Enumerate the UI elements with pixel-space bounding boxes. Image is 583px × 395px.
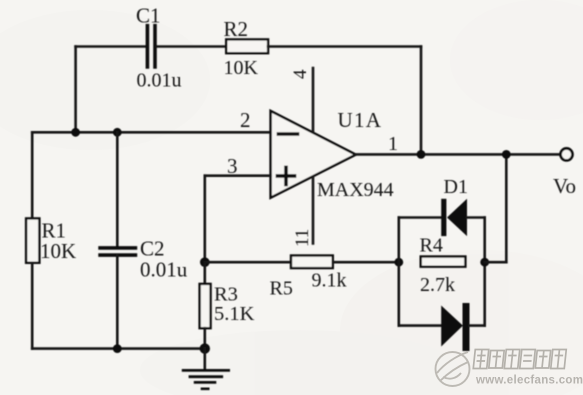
wire R3 lower xyxy=(204,328,207,348)
wire loop bottom left segment xyxy=(399,324,442,327)
svg-text:D1: D1 xyxy=(444,176,468,198)
svg-text:4: 4 xyxy=(290,69,311,79)
node pin3/R5/R3 xyxy=(200,257,210,267)
wire C2 branch upper xyxy=(116,132,119,247)
wire C2 branch lower xyxy=(116,255,119,348)
wire pin3 horizontal xyxy=(205,174,271,177)
svg-text:2.7k: 2.7k xyxy=(420,274,455,296)
node C2/ground rail xyxy=(113,344,122,353)
wire C1 to R2 xyxy=(157,45,226,48)
svg-text:MAX944: MAX944 xyxy=(317,179,394,201)
capacitor C1 xyxy=(136,4,182,92)
wire top left horizontal to C1 xyxy=(76,45,146,48)
svg-text:0.01u: 0.01u xyxy=(137,70,182,92)
wire pin3 vertical xyxy=(204,176,207,263)
wire left vertical C1 branch xyxy=(74,47,77,133)
pin 11 stub xyxy=(292,177,313,247)
svg-text:C1: C1 xyxy=(136,4,161,28)
resistor R5 xyxy=(270,256,347,300)
svg-text:0.01u: 0.01u xyxy=(140,258,188,282)
wire loop top left segment xyxy=(399,216,442,219)
wire R5 to loop xyxy=(333,261,399,264)
wire R1 bottom to ground rail xyxy=(31,263,34,349)
pin 2 label xyxy=(240,108,251,132)
svg-text:R2: R2 xyxy=(224,17,249,41)
wire R3 upper xyxy=(204,262,207,284)
svg-text:10K: 10K xyxy=(40,239,76,263)
svg-text:2: 2 xyxy=(240,108,251,132)
watermark text xyxy=(473,350,566,369)
node B junction C2/pin2 xyxy=(113,128,122,137)
wire bottom ground rail xyxy=(32,347,205,350)
wire loop right vertical xyxy=(483,218,486,326)
svg-text:R4: R4 xyxy=(420,235,443,257)
terminal Vo xyxy=(553,148,576,198)
watermark logo xyxy=(436,352,470,386)
wire left vertical to R1 xyxy=(31,132,34,218)
svg-text:11: 11 xyxy=(292,229,313,247)
svg-text:5.1K: 5.1K xyxy=(214,303,255,325)
pin 3 label xyxy=(227,154,238,178)
resistor R1 xyxy=(26,218,76,263)
node ground junction xyxy=(200,343,210,353)
capacitor C2 xyxy=(100,237,188,282)
pin 1 label xyxy=(388,133,398,155)
watermark url xyxy=(475,375,583,387)
diode D1 bottom xyxy=(441,303,469,351)
svg-text:9.1k: 9.1k xyxy=(312,270,347,292)
diode D1 top xyxy=(441,176,468,236)
wire loop bottom right segment xyxy=(470,324,485,327)
wire pin2 horizontal xyxy=(32,131,270,134)
resistor R3 xyxy=(200,283,255,328)
resistor R4 xyxy=(420,235,466,297)
svg-text:U1A: U1A xyxy=(338,108,383,132)
svg-text:Vo: Vo xyxy=(553,174,576,198)
wire R2 to top right corner xyxy=(268,45,421,48)
svg-text:R5: R5 xyxy=(270,278,293,300)
wire loop left vertical xyxy=(397,218,400,326)
wire node to R5 xyxy=(205,261,291,264)
node riser/output xyxy=(502,150,511,159)
wire riser up to output xyxy=(505,154,508,262)
svg-text:www.elecfans.com: www.elecfans.com xyxy=(475,375,583,387)
svg-text:R3: R3 xyxy=(214,283,238,305)
svg-text:10K: 10K xyxy=(224,57,259,79)
node A junction C1/pin2 xyxy=(71,128,80,137)
op-amp U1A xyxy=(271,108,394,201)
wire feedback vertical down to output xyxy=(420,47,423,155)
svg-text:1: 1 xyxy=(388,133,398,155)
pin 4 stub xyxy=(290,68,313,132)
resistor R2 xyxy=(224,17,269,79)
wire output horizontal xyxy=(356,153,561,156)
wire loop top right segment xyxy=(467,216,485,219)
node feedback/output xyxy=(417,150,426,159)
wire loop right to riser xyxy=(485,261,507,264)
node loop right xyxy=(480,258,489,267)
ground xyxy=(183,349,228,389)
node loop left xyxy=(394,258,403,267)
